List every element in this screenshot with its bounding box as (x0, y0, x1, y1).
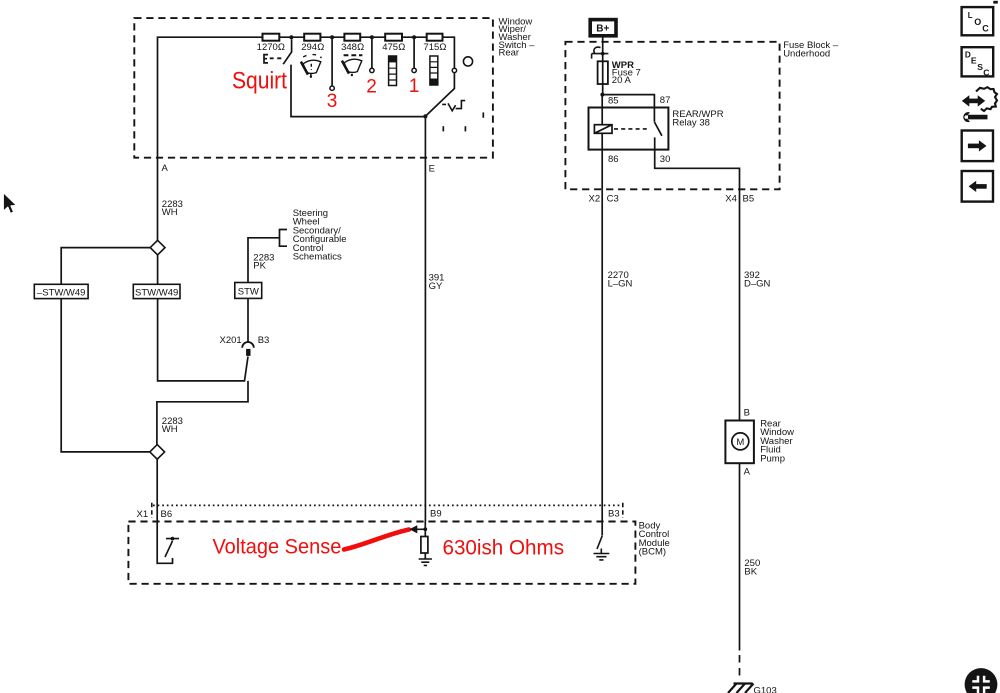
wire (402, 36, 427, 38)
voltage sense arrow black (416, 528, 425, 530)
svg-text:85: 85 (608, 96, 619, 107)
connector box STW (235, 283, 262, 299)
node junction squirt (289, 35, 293, 39)
reference bracket (280, 230, 288, 247)
node junction 85/87 (600, 93, 604, 97)
connector box -STW/W49 (34, 284, 88, 298)
squirt common wire (291, 65, 425, 117)
wire diamond to STW/W49 (157, 255, 159, 284)
connector box STW/W49 (133, 284, 180, 298)
toolbar button back arrow (962, 171, 993, 202)
svg-text:L: L (968, 11, 973, 20)
wiper icon intermittent 2 (342, 55, 363, 76)
svg-text:B9: B9 (430, 508, 442, 519)
wire E down to BCM (424, 116, 426, 521)
wire to right terminal (443, 37, 455, 68)
connector separator right (622, 503, 624, 518)
wire diamond left branch (61, 248, 150, 285)
wire -STW/W49 down to diamond (61, 299, 150, 452)
wire drop terminal 1 (413, 37, 415, 68)
window wiper/washer switch box (dashed) (134, 18, 493, 158)
terminal 2 (370, 68, 374, 72)
wire diamond down to BCM (156, 459, 158, 521)
wire (279, 36, 304, 38)
off position circle (463, 57, 472, 66)
svg-text:O: O (974, 17, 981, 27)
wire B+ down (602, 38, 604, 96)
node junction E (423, 114, 427, 118)
node junction B9 (423, 527, 427, 531)
B3 internal switch to ground (601, 522, 603, 536)
connector X201 pin square (246, 349, 250, 356)
svg-text:30: 30 (660, 154, 671, 165)
relay coil (594, 125, 612, 134)
wire (360, 36, 385, 38)
svg-text:STW/W49: STW/W49 (135, 287, 178, 298)
terminal 1 (412, 68, 416, 72)
svg-text:X4: X4 (725, 193, 737, 204)
svg-text:B6: B6 (161, 509, 173, 520)
wiper park symbol (442, 101, 465, 111)
resistor R 294 ohm (304, 34, 320, 41)
wire coil vertical (601, 95, 603, 190)
terminal 3 (330, 86, 334, 90)
svg-text:X201: X201 (220, 335, 242, 346)
svg-text:C: C (982, 24, 989, 34)
terminal selector common (452, 68, 456, 72)
svg-text:A: A (744, 467, 751, 478)
resistor R 715 ohm (427, 34, 443, 41)
wire X201 down to lower branch (157, 381, 248, 445)
delay bar icon 2 (430, 56, 438, 85)
red pen stroke (344, 530, 409, 550)
wire: top bus (158, 37, 263, 240)
svg-text:STW: STW (238, 287, 259, 298)
svg-text:C3: C3 (607, 193, 619, 204)
rear window washer fluid pump motor M (725, 421, 754, 464)
resistor R 348 ohm (344, 34, 360, 41)
toolbar button DESC (962, 47, 994, 77)
relay contact 30 wire (655, 137, 740, 189)
washer nozzle icon (264, 55, 268, 63)
svg-text:G103: G103 (754, 686, 777, 693)
relay switch blade (654, 108, 662, 136)
svg-text:20 A: 20 A (612, 75, 632, 86)
node junction 3 (330, 35, 334, 39)
toolbar trace icon (962, 87, 997, 122)
wiper icon intermittent 1 (301, 55, 322, 78)
tiny corner mark (993, 1, 998, 4)
BCM connector face dotted line (153, 504, 623, 506)
delay bar icon 1 (389, 56, 397, 86)
toolbar button LOC (962, 7, 994, 35)
svg-text:1: 1 (409, 76, 420, 97)
splice diamond lower (150, 445, 165, 460)
svg-text:–STW/W49: –STW/W49 (37, 287, 86, 298)
svg-text:X1: X1 (137, 509, 149, 520)
B3 ground (594, 549, 610, 560)
ground G103 (728, 684, 754, 693)
wire STW up to bracket (248, 238, 280, 283)
svg-text:3: 3 (327, 91, 338, 112)
svg-text:B+: B+ (596, 24, 609, 35)
wire drop terminal 3 (331, 37, 333, 86)
B9 ground (419, 559, 432, 565)
svg-text:M: M (736, 437, 744, 448)
node junction 2 (370, 35, 374, 39)
svg-text:475Ω: 475Ω (382, 42, 405, 53)
selector blade (425, 73, 454, 117)
washer nozzle dashes (270, 57, 282, 59)
B6 internal switch (157, 522, 172, 564)
svg-text:715Ω: 715Ω (423, 42, 446, 53)
fuse block box (dashed) (565, 42, 779, 190)
connector X201 arc (242, 342, 254, 348)
svg-text:B: B (744, 408, 750, 419)
relay box REAR/WPR Relay 38 (589, 108, 669, 150)
svg-text:X2: X2 (589, 193, 601, 204)
svg-text:B5: B5 (743, 193, 755, 204)
connector separator X1 (151, 503, 153, 518)
svg-text:Voltage Sense: Voltage Sense (212, 535, 341, 559)
detent dash b (442, 126, 444, 131)
wire to 87 (602, 95, 654, 108)
node junction 1 (412, 35, 416, 39)
wire B5 down to pump (739, 189, 741, 420)
wire dashed to ground (739, 655, 741, 681)
wire C3 down to BCM (601, 189, 603, 521)
svg-text:E: E (971, 56, 977, 66)
svg-text:C: C (983, 68, 989, 78)
svg-text:B3: B3 (258, 335, 270, 346)
svg-text:Squirt: Squirt (232, 66, 288, 94)
squirt switch blade (283, 39, 291, 64)
svg-text:86: 86 (608, 154, 619, 165)
svg-text:348Ω: 348Ω (341, 42, 364, 53)
detent dash a (482, 112, 484, 117)
connector terminal hook (594, 47, 601, 53)
bottom right fit icon (965, 668, 998, 693)
svg-text:A: A (162, 163, 169, 174)
resistor R 475 ohm (385, 34, 402, 41)
wire pump down (739, 463, 741, 650)
detent dash c (464, 126, 466, 131)
B9 internal resistor wire (424, 522, 426, 560)
mouse cursor (3, 192, 17, 213)
B9 internal resistor 630 ohm (421, 537, 428, 554)
B+ power box (590, 20, 616, 36)
wire STW down to X201 (247, 298, 249, 341)
fuse WPR Fuse 7 20A (598, 61, 608, 84)
svg-text:1270Ω: 1270Ω (257, 42, 285, 53)
svg-text:2: 2 (366, 77, 377, 98)
splice diamond upper (150, 240, 165, 255)
svg-text:E: E (429, 164, 435, 175)
svg-text:B3: B3 (608, 508, 620, 519)
resistor R 1270 ohm (263, 34, 280, 41)
toolbar button next arrow (962, 131, 993, 162)
BCM box (dashed) (128, 522, 635, 584)
relay actuating dashed link (614, 128, 650, 130)
wire drop terminal 2 (371, 37, 373, 68)
wire STW/W49 down and right (158, 299, 248, 381)
svg-text:87: 87 (660, 95, 671, 106)
svg-text:391GY: 391GY (429, 273, 445, 292)
svg-text:294Ω: 294Ω (301, 42, 324, 53)
wire (320, 36, 344, 38)
svg-text:630ish Ohms: 630ish Ohms (442, 536, 564, 559)
